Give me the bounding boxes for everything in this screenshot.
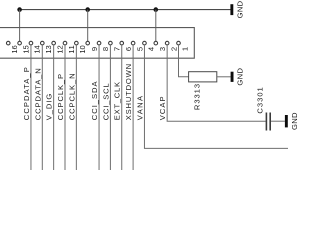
svg-text:2: 2	[169, 47, 178, 51]
svg-text:5: 5	[135, 47, 144, 51]
svg-text:V_DIG: V_DIG	[45, 94, 54, 121]
svg-text:GND: GND	[235, 0, 244, 18]
svg-text:12: 12	[55, 45, 64, 53]
svg-text:CCPDATA_N: CCPDATA_N	[33, 68, 42, 120]
svg-text:R3313: R3313	[193, 84, 202, 110]
svg-text:1: 1	[181, 47, 190, 51]
svg-text:XSHUTDOWN: XSHUTDOWN	[124, 64, 133, 120]
svg-text:CCPCLK_P: CCPCLK_P	[56, 74, 65, 120]
svg-text:GND: GND	[290, 112, 299, 130]
svg-text:13: 13	[44, 45, 53, 53]
svg-text:GND: GND	[236, 68, 245, 86]
svg-text:8: 8	[101, 47, 110, 51]
svg-text:VANA: VANA	[135, 95, 144, 120]
svg-text:4: 4	[147, 47, 156, 51]
svg-text:7: 7	[113, 47, 122, 51]
svg-text:C3301: C3301	[256, 87, 265, 113]
svg-text:CCPDATA_P: CCPDATA_P	[22, 67, 31, 120]
svg-text:6: 6	[124, 47, 133, 51]
svg-text:EXT_CLK: EXT_CLK	[113, 82, 122, 120]
svg-text:16: 16	[10, 45, 19, 53]
svg-text:10: 10	[78, 45, 87, 53]
svg-text:11: 11	[67, 45, 76, 53]
svg-text:CCPCLK_N: CCPCLK_N	[67, 73, 76, 120]
svg-text:9: 9	[90, 47, 99, 51]
svg-text:CCI_SDA: CCI_SDA	[90, 80, 99, 120]
svg-text:CCI_SCL: CCI_SCL	[101, 83, 110, 120]
svg-text:15: 15	[21, 45, 30, 53]
svg-text:VCAP: VCAP	[158, 96, 167, 120]
svg-text:3: 3	[158, 47, 167, 51]
svg-text:14: 14	[33, 45, 42, 53]
